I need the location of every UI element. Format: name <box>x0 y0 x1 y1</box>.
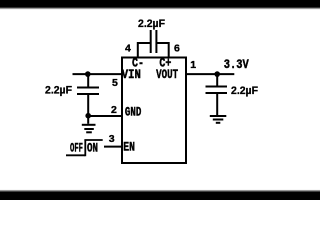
wire: enable stub to EN pin 3 <box>104 146 122 148</box>
wire: ground node to GND pin 2 <box>88 115 122 117</box>
capacitor 2.2uF input (VIN to ground) <box>77 74 99 116</box>
svg-text:5: 5 <box>112 77 118 89</box>
capacitor 2.2uF flying (between pins 4 and 6) <box>151 30 157 53</box>
ground symbol (input side) <box>82 116 96 133</box>
junction: output node <box>214 71 220 77</box>
svg-text:6: 6 <box>174 43 180 55</box>
svg-text:2.2µF: 2.2µF <box>45 84 72 96</box>
svg-text:2.2µF: 2.2µF <box>138 18 165 30</box>
wire: flying capacitor right plate lead and pin 6 riser <box>157 43 169 58</box>
svg-text:3.3V: 3.3V <box>224 57 249 72</box>
IC U1 charge-pump regulator body <box>122 58 186 164</box>
svg-text:VOUT: VOUT <box>156 67 178 82</box>
wire: VOUT pin 1 to output node <box>186 73 234 75</box>
svg-text:2.2µF: 2.2µF <box>231 85 258 97</box>
svg-text:1: 1 <box>190 59 196 71</box>
switch level annotation (low=OFF step high=ON) <box>66 140 103 157</box>
svg-text:VIN: VIN <box>122 67 141 82</box>
capacitor 2.2uF output (VOUT to ground) <box>206 74 228 115</box>
svg-text:4: 4 <box>125 43 131 55</box>
wire: pin 4 riser and lead to flying capacitor left plate <box>138 43 150 58</box>
junction: input node <box>85 71 91 77</box>
svg-text:2: 2 <box>111 104 117 116</box>
svg-text:3: 3 <box>109 133 115 145</box>
junction: input ground node <box>85 113 91 119</box>
svg-text:ON: ON <box>87 141 98 156</box>
ground symbol (output side) <box>210 116 227 123</box>
svg-text:OFF: OFF <box>70 141 83 156</box>
svg-text:GND: GND <box>125 105 142 120</box>
svg-text:EN: EN <box>123 139 135 154</box>
wire: input net to VIN pin 5 <box>73 73 123 75</box>
